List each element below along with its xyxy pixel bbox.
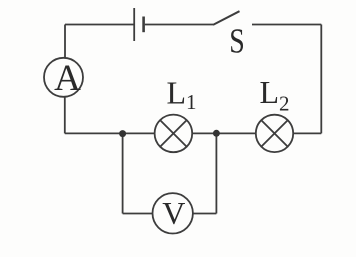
svg-text:V: V xyxy=(162,195,185,231)
wire node1 down to voltmeter loop xyxy=(122,133,124,213)
lamp L1 xyxy=(155,115,193,153)
svg-text:L1: L1 xyxy=(167,74,197,114)
svg-text:S: S xyxy=(229,21,245,60)
wire switch to top-right corner xyxy=(252,24,321,26)
svg-text:A: A xyxy=(54,58,81,99)
switch S blade xyxy=(213,11,240,25)
junction node 1 xyxy=(119,130,126,137)
wire ammeter to middle rail xyxy=(64,97,66,133)
wire L1 to L2 segment xyxy=(192,132,256,134)
wire left vertical top (corner to ammeter) xyxy=(65,25,134,58)
wire right vertical xyxy=(320,25,322,134)
wire voltmeter left lead xyxy=(123,213,153,215)
junction node 2 xyxy=(213,130,220,137)
svg-text:L2: L2 xyxy=(260,74,290,116)
wire L2 to right corner xyxy=(293,132,321,134)
lamp L2 xyxy=(256,115,293,152)
voltmeter V circle xyxy=(153,193,193,233)
wire node2 down to voltmeter loop xyxy=(215,133,217,213)
wire voltmeter right lead xyxy=(193,213,216,215)
wire battery to switch xyxy=(145,24,213,26)
battery xyxy=(134,8,143,41)
wire middle rail left segment xyxy=(65,132,155,134)
ammeter A circle xyxy=(44,58,83,97)
